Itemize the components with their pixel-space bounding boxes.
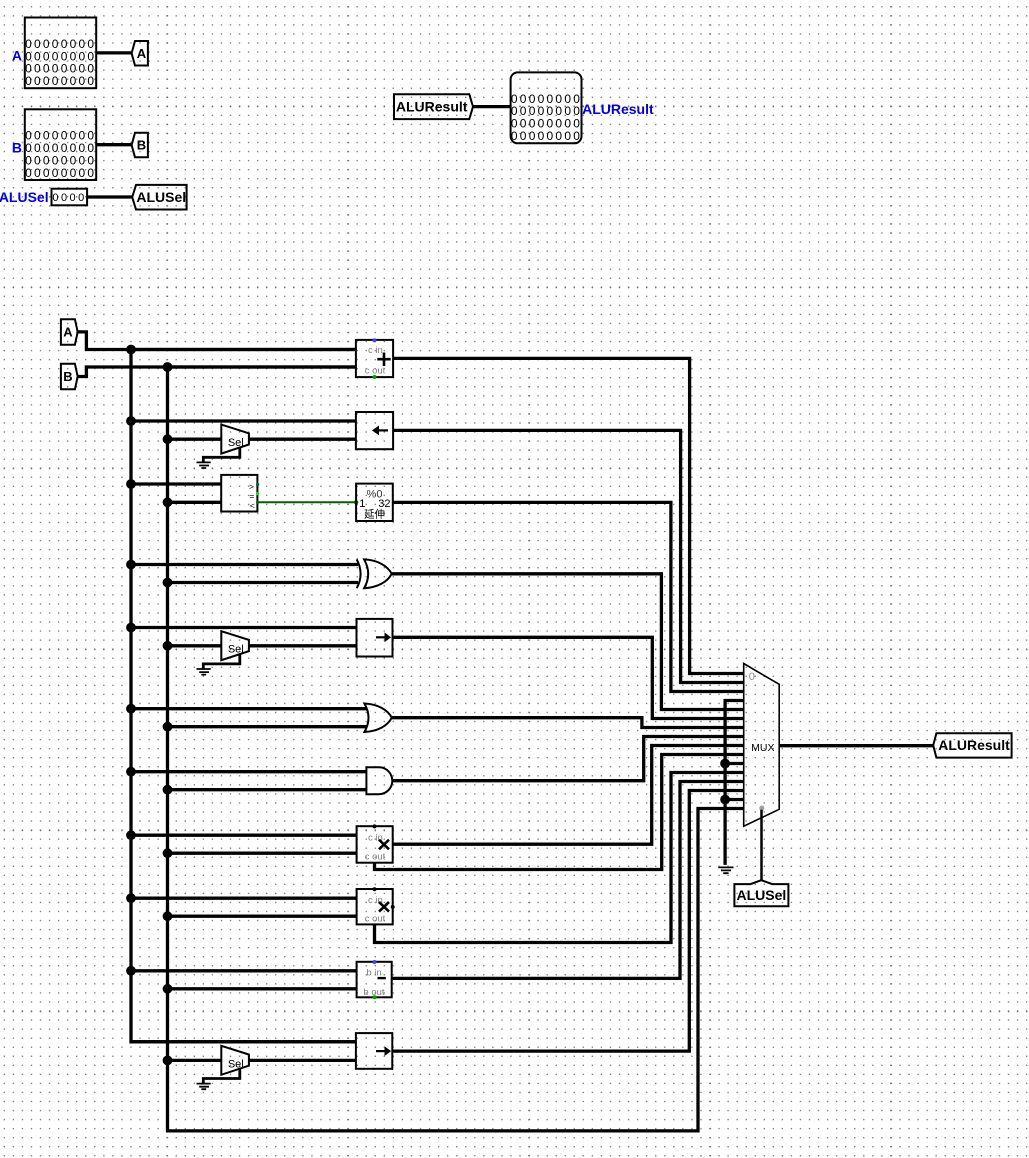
comparator U3: [221, 475, 259, 512]
output pin ALUResult (32-bit): [511, 72, 583, 143]
ground G2: [197, 654, 240, 675]
wire comparator less to extender (1-bit): [258, 500, 359, 504]
wire A to AND: [131, 770, 367, 773]
wire B to Sel mux S2: [168, 644, 222, 647]
svg-text:0: 0: [749, 671, 755, 683]
svg-text:c out: c out: [365, 365, 386, 376]
adder U1: [356, 338, 393, 379]
wire subtractor out: [392, 782, 744, 979]
bit extender U4: [356, 484, 393, 521]
svg-text:MUX: MUX: [751, 742, 774, 754]
bus B vertical: [163, 362, 744, 1131]
shifter U6 (shift right): [357, 619, 393, 657]
svg-text:b in: b in: [366, 967, 381, 978]
multiplexer S3 (Sel): [221, 1046, 249, 1075]
wire A to adder: [131, 348, 356, 351]
wire A to OR: [131, 707, 367, 710]
svg-text:Sel: Sel: [228, 1058, 244, 1070]
svg-text:ALUSel: ALUSel: [136, 189, 186, 205]
wire XOR out: [392, 574, 744, 710]
wire A to XOR: [131, 563, 358, 566]
tunnel ALUResult (right): [933, 733, 1011, 757]
svg-text:ALUSel: ALUSel: [737, 887, 787, 903]
multiplier U10: [357, 887, 395, 924]
subtractor U11: [357, 960, 392, 999]
wire B to Sel mux S1: [168, 438, 222, 441]
AND gate U8: [366, 767, 392, 794]
svg-text:B: B: [63, 369, 72, 384]
XOR gate U5: [357, 559, 392, 588]
tunnel ALUSel (bottom): [734, 880, 788, 906]
wire MUX out: [779, 744, 933, 747]
svg-text:>: >: [249, 482, 254, 492]
wire multiplier U10 carry out: [375, 773, 744, 943]
svg-text:00000000: 00000000: [511, 129, 582, 143]
multiplexer S1 (Sel): [221, 425, 249, 454]
tunnel A (main): [61, 319, 78, 345]
wire MUX select: [760, 810, 763, 881]
multiplier U9: [357, 824, 393, 862]
svg-text:ALUResult: ALUResult: [582, 101, 654, 117]
svg-text:c in: c in: [368, 345, 383, 356]
wire B to OR: [168, 725, 368, 728]
wire pin B to tunnel B: [96, 143, 131, 146]
tunnel B (main): [61, 364, 78, 390]
svg-text:A: A: [12, 48, 22, 64]
svg-text:ALUSel: ALUSel: [0, 189, 49, 205]
svg-text:c out: c out: [365, 852, 386, 863]
bus A vertical: [126, 345, 356, 1042]
wire OR out: [392, 718, 744, 728]
wire B to multiplier U9: [168, 852, 357, 855]
label A (blue): [12, 48, 22, 64]
multiplexer MUX U13: [744, 664, 780, 827]
svg-text:B: B: [12, 139, 22, 155]
wire B to Sel mux S3: [168, 1059, 222, 1062]
ground G1: [197, 448, 240, 469]
svg-text:ALUResult: ALUResult: [938, 737, 1010, 753]
wire A to comparator: [131, 482, 221, 485]
svg-text:c out: c out: [365, 914, 386, 925]
label B (blue): [12, 139, 22, 155]
shifter U12 (shift right): [356, 1033, 392, 1069]
wire Sel S2 to shifter U6: [249, 644, 357, 647]
ground G3: [197, 1069, 240, 1090]
svg-text:<: <: [250, 500, 255, 510]
wire B to adder: [168, 365, 356, 368]
wire multiplier U9 out: [393, 746, 744, 845]
svg-text:A: A: [63, 325, 73, 340]
input pin A (32-bit): [25, 18, 97, 89]
wire A to multiplier U10: [131, 897, 357, 900]
wire shifter U2 out: [393, 430, 744, 682]
wire Sel S3 to shifter U12: [249, 1059, 356, 1062]
svg-text:B: B: [137, 138, 146, 153]
wire Sel S1 to shifter U2: [249, 438, 356, 441]
wire A to multiplier U9: [131, 834, 357, 837]
wire pin ALUSel to tunnel: [87, 195, 132, 198]
wire A to subtractor U11: [131, 969, 357, 972]
wire shifter U6 out: [393, 637, 744, 718]
wire pin A to tunnel A: [96, 51, 131, 54]
svg-text:A: A: [137, 46, 147, 61]
input pin ALUSel (4-bit): [52, 189, 88, 206]
wire adder out: [393, 358, 744, 673]
ground G4: [718, 867, 733, 873]
svg-text:Sel: Sel: [228, 644, 244, 656]
wire B to AND: [168, 788, 368, 791]
svg-text:延伸: 延伸: [364, 509, 385, 521]
wire tunnel to output pin ALUResult: [473, 105, 511, 108]
wire A to shifter U6: [131, 626, 357, 629]
svg-text:0000: 0000: [52, 192, 86, 204]
svg-text:00000000: 00000000: [25, 166, 96, 180]
wire extender out: [393, 502, 744, 691]
wire B to multiplier U10: [168, 915, 357, 918]
wire tunnel A to bus: [78, 332, 356, 350]
wire A to shifter U12: [131, 1040, 356, 1043]
wire multiplier U9 carry out: [375, 755, 744, 870]
tunnel ALUResult (top): [394, 94, 473, 119]
wire B to comparator: [168, 501, 222, 504]
tunnel ALUSel (top): [132, 185, 186, 210]
OR gate U7: [364, 704, 391, 733]
svg-text:Sel: Sel: [228, 437, 244, 449]
wire B to subtractor U11: [168, 987, 357, 990]
wire B to XOR: [168, 581, 359, 584]
wire AND out: [392, 737, 743, 781]
label ALUResult (blue): [582, 101, 654, 117]
shifter U2 (shift left): [356, 412, 393, 449]
multiplexer S2 (Sel): [221, 631, 249, 660]
tunnel B (top): [132, 133, 148, 158]
svg-text:00000000: 00000000: [25, 74, 96, 88]
label ALUSel (blue): [0, 189, 49, 205]
input pin B (32-bit): [25, 109, 97, 180]
wire shifter U12 out: [392, 791, 743, 1052]
svg-text:ALUResult: ALUResult: [396, 98, 468, 114]
wire A to shifter U2: [131, 419, 356, 422]
tunnel A (top): [132, 41, 148, 66]
ground bus for unused MUX inputs: [720, 701, 744, 865]
wire tunnel B to bus: [78, 367, 356, 377]
